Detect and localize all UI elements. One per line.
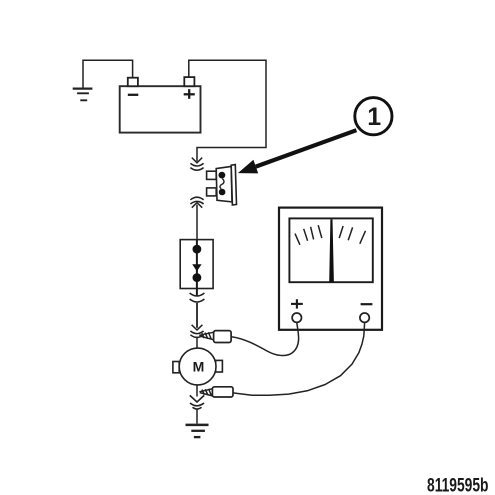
connector (item 1) pin 1 — [207, 171, 217, 179]
wire breaker to motor feed — [196, 303, 198, 328]
meter scale tick 3 — [311, 227, 314, 240]
motor M1 body — [179, 348, 216, 385]
meter scale tick 5 — [339, 226, 343, 238]
connector internal squiggle wire — [220, 179, 224, 189]
wire break symbol B4 (above motor) — [190, 325, 203, 338]
meter scale tick 7 — [360, 231, 366, 244]
meter plus label — [291, 299, 303, 308]
wire break symbol B2 (below connector) — [190, 197, 203, 207]
battery positive terminal post — [184, 77, 194, 86]
ground G1 (battery negative ground, top left) — [73, 89, 93, 101]
meter positive terminal — [292, 313, 301, 322]
connector terminal dot 2 — [219, 189, 226, 196]
connector (item 1) pin 2 — [207, 188, 217, 196]
motor right tab — [216, 360, 223, 372]
breaker terminal dot lower — [193, 273, 202, 282]
circuit breaker box — [180, 240, 213, 289]
meter positive lead wire to probe 1 — [231, 323, 298, 356]
callout arrowhead — [238, 160, 258, 174]
wire through breaker box — [196, 240, 198, 296]
wire break symbol B3 (below breaker box) — [190, 293, 205, 302]
meter scale tick 1 — [295, 234, 300, 245]
meter case — [279, 208, 382, 330]
meter negative terminal — [360, 313, 369, 322]
battery plus label — [184, 89, 195, 99]
meter scale window — [289, 218, 372, 282]
meter scale tick 4 — [318, 225, 322, 238]
wire to ground G2 — [196, 409, 198, 424]
svg-text:8119595b: 8119595b — [427, 475, 489, 495]
battery B1 body — [120, 86, 201, 132]
battery negative terminal post — [128, 78, 138, 87]
connector (item 1) flange — [231, 165, 236, 205]
test probe 1 body — [214, 331, 232, 343]
svg-text:1: 1 — [367, 103, 381, 131]
motor left tab — [173, 362, 179, 373]
wire break symbol B5 (below motor) — [190, 395, 204, 409]
connector terminal dot 1 — [219, 172, 226, 179]
ground G2 (motor ground, bottom) — [186, 425, 209, 437]
probe clip 2 jaws — [199, 389, 213, 396]
callout arrow shaft — [256, 130, 357, 166]
svg-text:M: M — [193, 359, 205, 375]
test probe 2 body — [212, 387, 233, 397]
meter scale tick 6 — [348, 227, 352, 240]
wire motor bottom — [196, 385, 198, 397]
battery minus label — [128, 94, 139, 96]
wire into motor top — [196, 337, 198, 349]
breaker arrow — [192, 264, 201, 271]
meter scale tick 2 — [304, 229, 308, 241]
wire battery negative terminal to ground G1 — [83, 60, 133, 88]
callout circle 1 — [355, 98, 392, 135]
meter negative lead wire to probe 2 — [233, 323, 365, 395]
wire break symbol B1 (above connector) — [190, 158, 203, 171]
meter needle — [329, 219, 334, 282]
breaker terminal dot upper — [193, 245, 202, 254]
wire connector to breaker box — [196, 205, 198, 240]
connector (item 1) body — [216, 166, 232, 202]
wire battery positive terminal to connector — [189, 60, 266, 161]
meter minus label — [361, 303, 373, 305]
probe clip 1 jaws — [199, 332, 214, 340]
